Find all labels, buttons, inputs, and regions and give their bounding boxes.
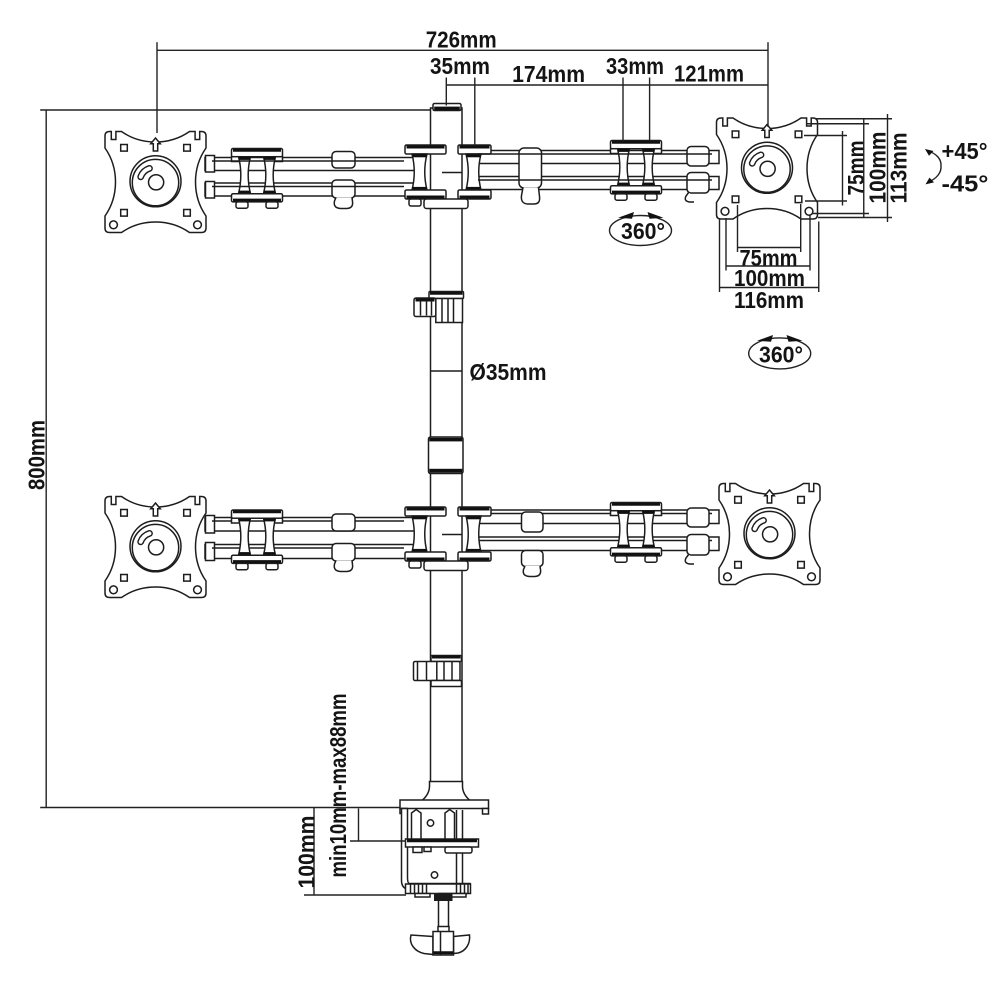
svg-text:360°: 360° <box>621 218 665 244</box>
svg-text:113mm: 113mm <box>886 133 912 204</box>
desk plate <box>400 800 489 809</box>
svg-text:360°: 360° <box>759 342 803 368</box>
top arm spool clamp 1 <box>232 149 283 209</box>
svg-text:174mm: 174mm <box>512 61 585 87</box>
dim 100mm right vertical <box>806 123 869 125</box>
svg-text:-45°: -45° <box>942 170 989 196</box>
bracket hole upper <box>427 820 433 826</box>
dim 800mm <box>45 110 47 808</box>
pole lower knob collar <box>431 656 462 662</box>
pole seam inside bottom clamp <box>442 534 462 536</box>
svg-text:121mm: 121mm <box>674 61 744 87</box>
svg-text:Ø35mm: Ø35mm <box>470 359 547 385</box>
pole sleeve <box>429 437 464 474</box>
bottom arm left clip <box>332 514 355 531</box>
bottom arm tubes <box>205 503 719 577</box>
svg-text:116mm: 116mm <box>734 287 804 313</box>
top arm right clip <box>519 148 542 188</box>
top arm left clip <box>332 152 355 169</box>
vesa plate bottom-right <box>719 484 820 585</box>
rotation 360 ellipse top <box>610 216 672 246</box>
bottom arm pole clamp <box>405 507 491 571</box>
rotation 360 ellipse right <box>749 338 811 369</box>
bottom arm right clip <box>522 512 544 532</box>
top arm elbow at right plate <box>687 147 709 167</box>
dim 100mm below right plate <box>725 218 727 271</box>
clamp screw <box>439 894 449 932</box>
dim 100mm clamp height <box>313 808 315 896</box>
dim 75mm right vertical <box>804 135 847 137</box>
pole top cap <box>433 104 461 111</box>
clamp bracket <box>402 809 471 890</box>
dim 116mm below right plate <box>719 219 721 292</box>
svg-text:min10mm-max88mm: min10mm-max88mm <box>325 694 351 878</box>
bracket hole lower <box>431 872 437 878</box>
bottom arm elbow at right plate <box>687 508 709 527</box>
dim 75mm below right plate <box>737 205 739 252</box>
svg-text:35mm: 35mm <box>430 53 490 79</box>
pole base flare <box>422 782 470 801</box>
pole collar with knob <box>429 292 464 299</box>
svg-text:+45°: +45° <box>942 138 988 164</box>
pole seam inside top clamp <box>442 172 462 174</box>
bottom arm tube highlight lines <box>212 520 404 522</box>
top arm tubes <box>205 141 719 209</box>
svg-text:726mm: 726mm <box>426 26 497 52</box>
dim 726mm line <box>157 49 768 51</box>
middle jaw <box>406 839 479 847</box>
svg-text:33mm: 33mm <box>606 53 664 79</box>
vesa plate bottom-left <box>105 497 206 598</box>
top arm spool clamp 2 <box>611 141 662 201</box>
top arm tube highlight lines <box>212 160 404 162</box>
dim 35/174/33/121 line <box>446 84 768 86</box>
dim 113mm right vertical <box>815 118 892 120</box>
vesa plate top-left <box>105 132 206 233</box>
top arm pole clamp <box>405 145 491 209</box>
vesa plate top-right <box>717 118 818 219</box>
dim min-max clamp range <box>358 809 360 842</box>
tilt arc arrow <box>927 151 942 183</box>
pole <box>431 108 463 782</box>
bottom arm spool clamp 1 <box>232 510 283 570</box>
bottom jaw with teeth <box>406 884 471 894</box>
svg-text:100mm: 100mm <box>294 816 320 889</box>
bracket slot posts <box>412 810 422 842</box>
pole seam <box>431 370 463 372</box>
bottom arm spool clamp 2 <box>611 503 662 563</box>
svg-text:800mm: 800mm <box>24 420 50 490</box>
wing nut <box>410 935 433 955</box>
